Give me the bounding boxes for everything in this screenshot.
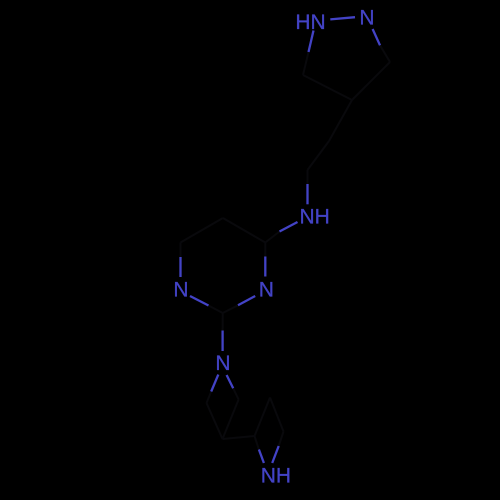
wire: azetidine2 NH-CR bond nitrogen half [272,446,279,463]
wire: NH-C4 pyrimidine bond nitrogen half [280,222,298,232]
wire: pyrazole C3-C4 bond [352,62,390,100]
wire: CH2-NH bond nitrogen half [306,184,308,204]
wire: pyrimidine C6-N1 bond carbon half [180,243,182,258]
svg-text:HN: HN [295,11,325,34]
wire: pyrazole N1-N2 bond [330,17,355,19]
wire: pyrazole N2-C3 bond nitrogen half [373,29,380,45]
wire: pyrazole N1-C5 bond nitrogen half [309,31,314,53]
wire: pyrimidine N3-C4 bond nitrogen half [264,257,266,277]
svg-text:N: N [359,6,374,29]
wire: azetidine2 NH-CL bond nitrogen half [259,450,264,464]
wire: pyrimidine N3-C2 bond nitrogen half [238,296,255,305]
wire: azetidine N-CL bond carbon half [207,392,212,404]
wire: pyrimidine N3-C2 bond carbon half [223,305,238,313]
wire: azetidine CL-Cspiro bond [207,403,223,439]
wire: C2-N azetidine bond nitrogen half [221,331,223,352]
wire: azetidine2 NH-CL bond carbon half [255,436,259,450]
svg-text:N: N [215,352,230,375]
wire: pyrimidine N1-C2 bond carbon half [209,306,223,314]
wire: CH2-NH bond carbon half [307,170,309,184]
wire: azetidine N-CL bond nitrogen half [211,375,218,392]
wire: pyrimidine N1-C6 bond nitrogen half [179,257,181,277]
wire: azetidine N-CR bond carbon half [233,388,238,399]
svg-text:N: N [173,279,188,302]
wire: C2-N azetidine bond carbon half [222,313,224,331]
svg-text:NH: NH [261,465,291,488]
wire: inter-ring C-C bond [223,436,255,439]
wire: pyrazole N2-C3 bond carbon half [380,45,390,62]
wire: pyrazole C4-C5 bond [303,75,352,100]
wire: azetidine2 NH-CR bond carbon half [279,432,284,447]
wire: NH-C4 pyrimidine bond carbon half [265,232,279,243]
svg-text:NH: NH [300,206,330,229]
wire: chain CH2-CH2 bond [308,141,330,170]
wire: pyrimidine C6-C5 bond [181,218,223,243]
wire: chain C4-CH2 bond [329,100,352,141]
wire: pyrimidine C5-C4 bond [223,218,265,243]
wire: pyrimidine N1-C2 bond nitrogen half [190,296,209,306]
wire: pyrazole N1-C5 bond carbon half [303,52,309,75]
wire: pyrimidine C4-N3 bond carbon half [264,243,266,257]
wire: azetidine2 CR-Ctop bond [270,398,284,432]
wire: azetidine CR-Cspiro bond [223,400,239,440]
svg-text:N: N [259,279,274,302]
wire: azetidine N-CR bond nitrogen half [227,375,234,388]
wire: azetidine2 CL-Ctop bond [255,398,271,437]
